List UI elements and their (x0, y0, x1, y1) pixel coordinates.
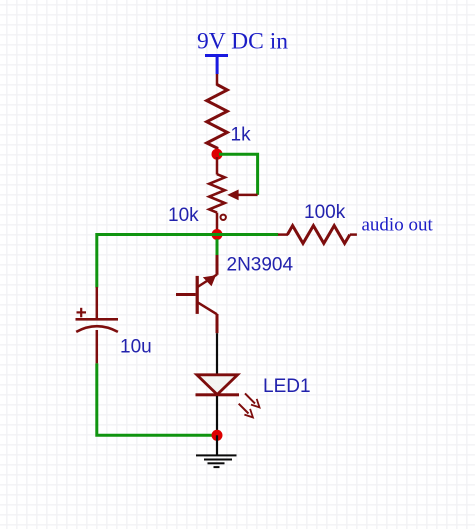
wire C1 to ground node (97, 363, 215, 435)
wire node A to wiper (219, 154, 258, 195)
wire LED to ground node (216, 396, 218, 435)
svg-text:LED1: LED1 (263, 376, 311, 397)
resistor R1 (207, 85, 228, 155)
wire node B to left rail (97, 235, 217, 288)
svg-text:audio out: audio out (362, 215, 434, 236)
svg-text:1k: 1k (231, 125, 252, 146)
svg-text:10k: 10k (168, 205, 199, 226)
resistor R3 (278, 226, 357, 244)
svg-text:2N3904: 2N3904 (227, 255, 294, 276)
transistor Q1 (176, 255, 217, 333)
junction node A (212, 149, 223, 160)
wire node B to R3 (217, 233, 278, 236)
ground (196, 454, 237, 468)
potentiometer R2 wiper arrow (227, 190, 257, 201)
capacitor C1 (76, 287, 119, 363)
svg-text:100k: 100k (304, 202, 346, 223)
wire Q1 emitter to LED (216, 333, 218, 376)
potentiometer R2 body (209, 157, 225, 235)
port 9V DC in terminal (205, 54, 228, 74)
svg-text:9V DC in: 9V DC in (197, 29, 288, 55)
junction node B (212, 229, 223, 240)
svg-text:10u: 10u (120, 337, 152, 358)
wire node to ground symbol (216, 435, 218, 456)
wire port to R1 (216, 74, 219, 86)
wire node B to Q1 collector (216, 239, 219, 256)
junction node GND (212, 430, 223, 441)
potentiometer pin circle marker (221, 215, 226, 220)
LED emission arrows (239, 393, 260, 417)
LED D1 (196, 375, 240, 397)
